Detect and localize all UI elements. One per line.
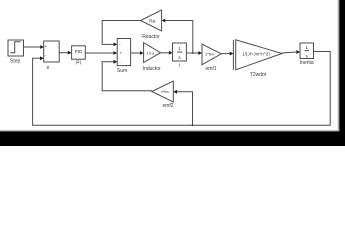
integrator Inertia 1/s bbox=[300, 43, 314, 66]
svg-text:i: i bbox=[179, 63, 180, 69]
svg-text:1/La: 1/La bbox=[147, 50, 156, 55]
wire e to PID bbox=[59, 51, 71, 55]
step source Step bbox=[8, 40, 24, 65]
integrator i 1/s bbox=[173, 43, 187, 69]
sum block e bbox=[44, 41, 60, 71]
svg-text:+: + bbox=[119, 51, 122, 56]
svg-text:Reactor: Reactor bbox=[142, 34, 160, 40]
gain emf1 bbox=[202, 44, 221, 72]
svg-text:PID: PID bbox=[75, 49, 83, 54]
wire speed branch to emf2 input bbox=[173, 90, 192, 125]
svg-text:n*fim: n*fim bbox=[161, 90, 169, 94]
wire integrator i to emf1 bbox=[186, 51, 202, 55]
junction current branch node bbox=[192, 52, 194, 54]
svg-text:e: e bbox=[47, 65, 50, 71]
svg-text:Sum: Sum bbox=[117, 68, 127, 74]
svg-text:emf2: emf2 bbox=[162, 103, 173, 109]
black screen border bottom bbox=[0, 129, 345, 146]
gain Inductor 1/La bbox=[143, 43, 161, 72]
svg-text:PI: PI bbox=[76, 61, 81, 67]
svg-text:Ra: Ra bbox=[149, 18, 155, 24]
svg-text:1*fim: 1*fim bbox=[205, 52, 214, 56]
wire emf1 to T2wdot bbox=[221, 52, 233, 56]
gain Reactor Ra bbox=[141, 10, 162, 40]
PID controller PI bbox=[72, 46, 86, 67]
gain T2wdot bbox=[233, 40, 282, 78]
svg-text:+: + bbox=[45, 44, 48, 49]
wire Step to e bbox=[24, 45, 44, 49]
wire Inductor to integrator i bbox=[161, 51, 173, 55]
wire Inertia output feedback loop bbox=[33, 52, 331, 126]
black screen border right bbox=[337, 0, 345, 146]
wire branch current to Reactor input bbox=[162, 19, 193, 53]
svg-text:Step: Step bbox=[10, 59, 21, 65]
svg-text:1: 1 bbox=[305, 45, 308, 50]
wire T2wdot to Inertia bbox=[282, 50, 300, 54]
wire emf2 output to Sum bottom input bbox=[102, 60, 152, 91]
junction speed branch node bbox=[192, 124, 194, 126]
svg-text:emf1: emf1 bbox=[205, 66, 216, 72]
wire PID to Sum bbox=[85, 51, 117, 55]
svg-text:Inductor: Inductor bbox=[143, 66, 161, 72]
wire Reactor output down to Sum top input bbox=[102, 21, 140, 47]
sum block Sum bbox=[117, 39, 131, 75]
svg-text:1/(Jl+Jm*n^2): 1/(Jl+Jm*n^2) bbox=[242, 51, 270, 56]
svg-text:1: 1 bbox=[178, 46, 181, 51]
svg-text:T2wdot: T2wdot bbox=[250, 72, 267, 78]
svg-text:Inertia: Inertia bbox=[300, 60, 314, 66]
gain emf2 bbox=[152, 81, 174, 109]
wire Sum to Inductor bbox=[131, 51, 144, 55]
